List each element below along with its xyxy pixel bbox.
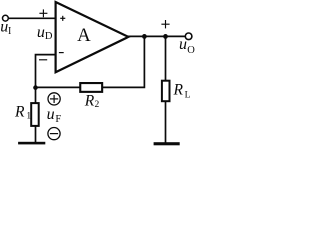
svg-text:L: L xyxy=(185,91,191,101)
svg-text:R: R xyxy=(173,82,184,99)
svg-text:O: O xyxy=(187,45,195,56)
svg-text:R: R xyxy=(14,103,25,120)
svg-text:u: u xyxy=(47,106,55,123)
svg-text:1: 1 xyxy=(26,112,31,122)
svg-text:F: F xyxy=(55,114,61,125)
svg-text:R: R xyxy=(84,92,95,109)
svg-text:2: 2 xyxy=(95,100,100,110)
svg-text:u: u xyxy=(37,24,45,41)
svg-text:A: A xyxy=(77,25,91,46)
svg-text:D: D xyxy=(45,31,53,42)
svg-text:I: I xyxy=(8,26,11,37)
svg-text:u: u xyxy=(179,36,187,53)
